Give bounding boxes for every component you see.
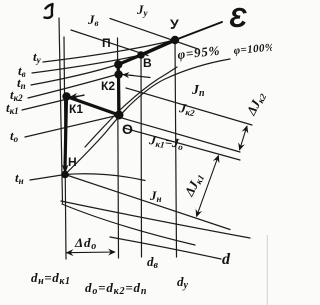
svg-text:Jн: Jн	[149, 188, 162, 204]
axis label J (hand-drawn)	[45, 4, 53, 18]
svg-text:dу: dу	[177, 274, 189, 291]
svg-text:Jк1=Jо: Jк1=Jо	[148, 132, 185, 152]
point Y	[171, 36, 179, 44]
point O	[115, 111, 124, 120]
isotherm t_n with extension past N	[30, 174, 145, 181]
vertical d_y line below Y	[175, 40, 177, 257]
arrowhead of t_k2 at K2	[123, 74, 134, 77]
faint right-edge scan line	[267, 235, 268, 305]
svg-text:ΔJк2: ΔJк2	[243, 89, 269, 119]
isotherm t_k1	[22, 95, 84, 110]
point K1	[62, 92, 70, 100]
svg-text:φ=100%: φ=100%	[233, 41, 272, 57]
svg-text:У: У	[170, 16, 179, 32]
isotherm t_y	[43, 40, 175, 62]
enthalpy line J_v	[71, 30, 148, 56]
svg-text:d: d	[222, 251, 231, 268]
point K2	[114, 70, 122, 78]
vertical d_v line below B	[140, 55, 143, 257]
enthalpy line J_k1=J_o	[124, 128, 240, 160]
process line Y-B	[141, 40, 175, 55]
svg-text:tу: tу	[33, 49, 42, 65]
fan line b2 from axis corner	[62, 204, 195, 245]
enthalpy line J_k2	[122, 118, 240, 152]
svg-text:В: В	[143, 56, 152, 70]
arrow delta d_o	[67, 251, 116, 254]
fan line b1 from axis corner	[61, 201, 250, 238]
svg-text:Jк2: Jк2	[177, 100, 196, 118]
enthalpy line J_y	[110, 19, 198, 50]
process line B-P	[118, 55, 141, 65]
enthalpy line J_p	[126, 88, 252, 125]
process line P-K2-O vertical	[118, 65, 119, 116]
arrow delta J_k1	[197, 156, 219, 217]
svg-text:dн=dк1: dн=dк1	[31, 270, 71, 287]
svg-text:Jв: Jв	[87, 12, 99, 28]
svg-text:tо: tо	[10, 128, 19, 144]
arrow delta J_k2	[240, 126, 248, 150]
svg-text:ΔJк1: ΔJк1	[181, 170, 206, 199]
point B	[137, 51, 145, 59]
isotherm t_k2 with overshoot	[28, 74, 150, 98]
svg-text:Δdо: Δdо	[74, 235, 97, 252]
svg-text:dв: dв	[147, 254, 159, 271]
svg-text:Jу: Jу	[136, 2, 149, 18]
vertical d_o line through P K2 O	[118, 38, 119, 258]
J axis	[59, 18, 63, 203]
phi=95% curve	[85, 67, 177, 147]
arrowhead pointing down into N	[62, 165, 68, 175]
svg-text:φ=95%: φ=95%	[177, 43, 221, 62]
isotherm t_p	[31, 65, 118, 86]
phi=100% curve	[66, 59, 230, 174]
arrowhead of t_k1 at K1	[71, 96, 84, 97]
isotherm t_o	[25, 115, 119, 137]
ray Y-E	[175, 22, 222, 40]
svg-text:tн: tн	[15, 170, 24, 186]
vertical d_n line through K1 and N	[64, 37, 66, 259]
point N	[61, 171, 69, 179]
point P	[114, 60, 122, 68]
svg-text:Н: Н	[68, 155, 77, 169]
svg-text:П: П	[102, 36, 111, 50]
d axis	[110, 237, 221, 259]
svg-text:Ɛ: Ɛ	[229, 2, 247, 33]
svg-text:Jп: Jп	[191, 83, 205, 99]
enthalpy line J_n	[65, 175, 230, 230]
svg-text:К2: К2	[101, 79, 115, 93]
svg-text:К1: К1	[69, 102, 83, 116]
process line K1-N	[65, 97, 67, 169]
isotherm t_v	[32, 55, 141, 73]
svg-text:dо=dк2=dп: dо=dк2=dп	[85, 280, 147, 297]
svg-text:О: О	[122, 121, 133, 137]
process line O-K1	[67, 97, 120, 116]
